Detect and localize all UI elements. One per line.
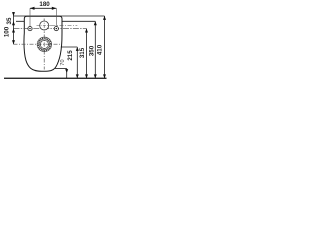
svg-text:35: 35: [6, 17, 13, 24]
svg-text:180: 180: [39, 1, 50, 8]
svg-text:350: 350: [88, 45, 95, 56]
svg-text:100: 100: [4, 26, 11, 37]
svg-text:410: 410: [96, 44, 103, 55]
svg-text:70: 70: [60, 59, 66, 65]
svg-text:215: 215: [67, 50, 74, 61]
svg-text:315: 315: [79, 47, 86, 58]
